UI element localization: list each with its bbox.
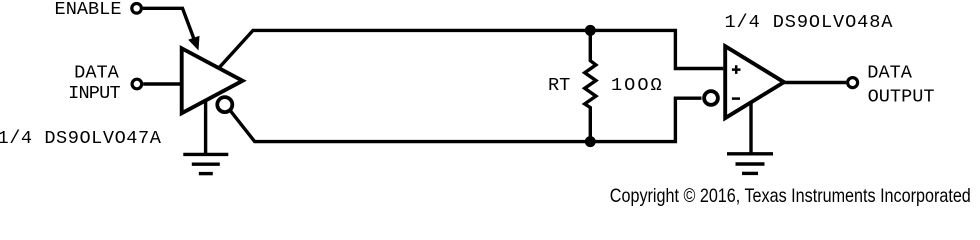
svg-text:1/4 DS9OLVO48A: 1/4 DS9OLVO48A [725, 12, 894, 33]
svg-text:1/4 DS9OLVO47A: 1/4 DS9OLVO47A [0, 128, 162, 149]
svg-text:DATA: DATA [74, 62, 119, 83]
svg-text:INPUT: INPUT [68, 83, 120, 104]
svg-text:1OOΩ: 1OOΩ [611, 75, 664, 96]
svg-text:Copyright © 2016, Texas Instru: Copyright © 2016, Texas Instruments Inco… [610, 185, 971, 207]
svg-text:RT: RT [548, 75, 570, 96]
svg-text:OUTPUT: OUTPUT [868, 87, 935, 108]
svg-text:DATA: DATA [867, 63, 912, 84]
svg-text:ENABLE: ENABLE [55, 0, 122, 20]
